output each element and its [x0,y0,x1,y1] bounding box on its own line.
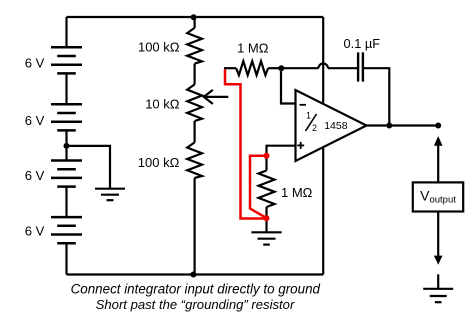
svg-text:1: 1 [306,111,311,121]
svg-text:6 V: 6 V [25,113,45,128]
svg-text:6 V: 6 V [25,168,45,183]
svg-text:Voutput: Voutput [420,188,456,206]
svg-text:6 V: 6 V [25,224,45,239]
svg-text:100 kΩ: 100 kΩ [138,155,180,170]
svg-text:6 V: 6 V [25,55,45,70]
svg-text:100 kΩ: 100 kΩ [138,39,180,54]
svg-text:1 MΩ: 1 MΩ [281,185,313,200]
svg-text:10 kΩ: 10 kΩ [145,97,180,112]
svg-text:2: 2 [312,123,317,133]
svg-text:Short past the “grounding” res: Short past the “grounding” resistor [96,297,295,312]
svg-text:0.1 µF: 0.1 µF [344,36,381,51]
svg-text:1458: 1458 [324,120,348,132]
svg-text:1 MΩ: 1 MΩ [237,40,269,55]
svg-text:Connect integrator input direc: Connect integrator input directly to gro… [71,281,321,296]
